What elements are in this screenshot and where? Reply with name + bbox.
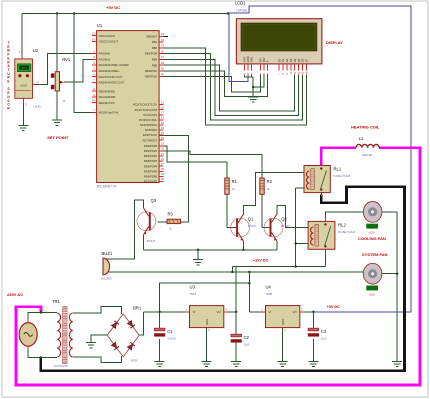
capacitor C3 [308,328,318,331]
wire U4 GND pin to ground [282,328,284,362]
svg-text:C3: C3 [321,329,327,334]
wire emitter rail [144,249,277,251]
LCD1 pins [244,64,246,71]
svg-text:35: 35 [161,44,165,48]
svg-text:RB7/PGD: RB7/PGD [145,75,157,79]
svg-text:38: 38 [161,61,165,65]
wire C3 top stub [312,312,314,328]
pin stub RL1 NO [320,193,322,197]
pin stub U3 VO [224,311,228,313]
svg-text:RV1: RV1 [62,57,71,62]
bridge diode D1 [111,321,119,329]
wire U3 VO to node [224,311,236,313]
ground C3 [308,361,318,363]
node LCD gnd RW [252,86,254,88]
svg-text:17: 17 [161,111,165,115]
wire PIC RD0 to R1 [159,146,227,178]
svg-text:+12V: +12V [369,292,375,296]
node +5V rail RV1 [56,12,58,14]
buzzer BUZ1 [103,258,110,275]
node +12V rail step [231,271,233,273]
wire RB6 to LCD E [159,71,267,97]
svg-text:RC0/T1OSO/T1CKI: RC0/T1OSO/T1CKI [133,103,157,107]
ground fans [392,361,402,363]
svg-text:RC7/RX/DT: RC7/RX/DT [143,138,158,142]
wire RL2 coil bottom stub [296,243,308,245]
svg-text:RD4/PSP4: RD4/PSP4 [144,164,158,168]
wire RB7 to LCD RS [159,75,260,92]
svg-text:LM35: LM35 [33,104,41,108]
svg-text:19: 19 [161,142,165,146]
transistor Q1 BC547 [231,218,250,237]
wire transformer secondary top to bridge [73,307,122,314]
wire +5V rail top [22,12,228,14]
node black tap [39,356,42,359]
svg-text:VI: VI [193,310,196,314]
pin stub U3 VI [186,311,190,313]
svg-text:VEE: VEE [250,57,254,63]
svg-text:RD2/PSP2: RD2/PSP2 [144,154,158,158]
svg-text:E: E [7,80,9,84]
svg-text:+12V: +12V [369,231,375,235]
svg-text:BC547: BC547 [281,224,290,228]
capacitor C1 [155,328,165,331]
svg-text:23: 23 [161,121,165,125]
bridge diode D2 [127,320,135,328]
svg-text:C2: C2 [244,335,250,340]
wire R1 to Q1 base [227,194,236,227]
svg-text:D7: D7 [305,58,309,62]
svg-text:27.0: 27.0 [21,67,27,71]
svg-text:RD5/PSP5: RD5/PSP5 [144,169,158,173]
svg-text:36: 36 [161,49,165,53]
wire thick black AC return [41,187,405,371]
svg-text:Q2: Q2 [281,217,287,222]
wire bridge right vertex to C1 rail [139,312,143,335]
wire system fan right stub [382,273,397,275]
svg-text:SYSTEM FAN: SYSTEM FAN [362,252,388,257]
wire transformer secondary bottom to bridge [73,356,122,363]
svg-text:COOLING FAN: COOLING FAN [358,236,386,241]
svg-text:29: 29 [161,172,165,176]
svg-text:13: 13 [92,32,96,36]
wire RB5 to LCD D4 [159,65,295,111]
svg-text:R2: R2 [267,179,273,184]
wire C3 bottom to ground [312,339,314,362]
wire magenta AC live loop [16,148,420,385]
svg-text:37: 37 [161,55,165,59]
svg-text:RE2/AN7/CS: RE2/AN7/CS [99,101,115,105]
svg-text:RL2: RL2 [338,222,346,227]
wire RV1 top to +5V rail [56,13,58,71]
svg-text:LCD1: LCD1 [235,0,246,5]
wire AC source bottom to transformer primary [28,346,57,357]
ground bridge [86,342,96,344]
svg-text:Q1: Q1 [248,217,254,222]
node C1 bridge [159,311,161,313]
wire U4 VO to +5V node [300,311,314,313]
transistor Q2 BC547 [264,218,283,237]
wire rail ground stem [197,250,199,260]
svg-text:VO: VO [292,310,297,314]
microcontroller U1 PIC16F877A [97,31,160,183]
node U3 VO C2 [235,311,237,313]
svg-text:15: 15 [161,100,165,104]
svg-text:14: 14 [92,37,96,41]
svg-text:C1: C1 [167,329,173,334]
svg-text:OSC2/CLKOUT: OSC2/CLKOUT [99,40,119,44]
svg-text:39: 39 [161,67,165,71]
wire U2 VCC to +5V rail [21,13,23,59]
wire RL2 common to cooling fan [326,212,363,223]
svg-text:BC547: BC547 [248,224,257,228]
node emitter rail gnd [197,249,199,251]
node emitter rail Q1 [242,249,244,251]
ground LCD [248,96,258,98]
AC source 220V [19,323,37,347]
svg-text:E: E [266,60,270,62]
pin stub U2 top [21,55,23,59]
svg-text:21: 21 [161,152,165,156]
wire LCD VDD to +5V [229,13,248,81]
svg-text:RB3/PGM: RB3/PGM [145,52,158,56]
svg-text:RC1/T1OSI/CCP2: RC1/T1OSI/CCP2 [135,108,158,112]
wire C1 top stub [159,312,161,328]
svg-text:U3: U3 [190,285,196,290]
wire bridge left vertex to ground [91,335,107,343]
resistor R1 [225,178,229,194]
wire LCD RW to ground [253,75,264,88]
U1 right pins [159,35,163,37]
svg-text:RB0/INT: RB0/INT [147,34,158,38]
wire +12V vertical to relay coils [295,188,297,267]
svg-text:RB5: RB5 [152,63,158,67]
wire Q3 emitter down [143,235,145,250]
svg-text:GND: GND [281,319,285,325]
svg-text:R1: R1 [232,179,238,184]
svg-text:22: 22 [161,157,165,161]
svg-text:RA5/AN4/SS/C2OUT: RA5/AN4/SS/C2OUT [99,81,125,85]
node +12V rail relay vertical [295,265,297,267]
wire U3 VO node up to +12V rail [235,267,237,312]
bridge diode D4 [127,342,135,350]
svg-text:RC2/CCP1: RC2/CCP1 [143,113,157,117]
wire PIC RC6 to R3 [159,136,189,222]
wire RB0 stub [159,35,168,37]
svg-text:16: 16 [161,105,165,109]
svg-text:RB6/PGC: RB6/PGC [145,69,157,73]
svg-text:RB4: RB4 [152,58,158,62]
svg-text:27: 27 [161,162,165,166]
svg-text:PIC16F877A: PIC16F877A [97,185,117,189]
wire MCLR pullup to +5V rail [74,13,96,112]
bridge diode D3 [111,342,119,350]
svg-text:U2: U2 [33,48,39,53]
wire RL2 switch bottom to +12V rail [324,249,326,266]
svg-text:RD6/PSP6: RD6/PSP6 [144,174,158,178]
transformer TR1 [57,313,60,357]
potentiometer RV1 [55,72,59,91]
svg-text:RE1/AN6/WR: RE1/AN6/WR [99,95,116,99]
svg-text:7805: 7805 [266,292,273,296]
wire cooling fan right to vertical [382,211,397,213]
ground U3 [202,361,212,363]
svg-text:Q3: Q3 [151,198,157,203]
svg-text:BC547: BC547 [147,239,156,243]
wire U4 input vertical [248,272,250,312]
svg-text:VI: VI [269,310,272,314]
svg-text:30: 30 [161,177,165,181]
ground U4 [278,361,288,363]
pin stub RL1 common [320,162,322,166]
svg-text:RB2: RB2 [152,46,158,50]
svg-text:MCLR/Vpp/THV: MCLR/Vpp/THV [99,111,119,115]
node over-line U4 [248,282,250,284]
wire Q3 collector to buzzer [103,200,144,259]
svg-text:BR1: BR1 [133,305,142,310]
svg-text:DJ1BH-T12LB: DJ1BH-T12LB [338,230,355,234]
svg-text:VOUT: VOUT [20,83,28,87]
svg-text:RB1: RB1 [152,40,158,44]
svg-text:+5V DC: +5V DC [106,5,120,10]
ground C1 [155,361,165,363]
wire RB2 to LCD D7 [159,48,306,125]
motor system fan [363,263,382,284]
ground emitter rail [193,259,203,261]
svg-text:+5V DC: +5V DC [327,305,341,309]
svg-text:RA4/T0CKI/C1OUT: RA4/T0CKI/C1OUT [99,75,123,79]
svg-text:20: 20 [161,147,165,151]
node U4 input fan line [248,271,250,273]
svg-text:RA0/AN0: RA0/AN0 [99,52,111,56]
wire Q1 emitter down [242,241,244,250]
svg-text:26: 26 [161,136,165,140]
svg-text:40: 40 [161,72,165,76]
motor cooling fan [363,202,382,223]
wire Q1 collector to RL1 coil [243,172,304,214]
wire +12V rail step [231,267,233,273]
svg-text:VO: VO [216,310,221,314]
wire PIC RD1 to R2 [159,151,262,178]
svg-text:DISPLAY: DISPLAY [326,40,343,45]
svg-text:R3: R3 [168,212,174,217]
svg-text:RC5/SDO: RC5/SDO [145,128,157,132]
svg-text:1000uF: 1000uF [167,336,176,340]
wire C1 bottom to ground [159,339,161,362]
node +5V C3 [312,311,314,313]
wire C2 top stub [235,312,237,334]
wire U2 GND [22,98,24,125]
svg-text:RE0/AN5/RD: RE0/AN5/RD [99,89,115,93]
svg-text:TRAN-2P2S: TRAN-2P2S [54,364,69,368]
svg-text:34: 34 [161,38,165,42]
U1 left pins [92,35,96,37]
wire U2 VOUT to PIC RA0 [37,54,97,85]
svg-text:RA2/AN2/VREF-/CVREF: RA2/AN2/VREF-/CVREF [99,63,130,67]
wire LCD ground stem [252,77,254,97]
svg-text:HEATING COIL: HEATING COIL [351,125,380,130]
svg-text:RC4/SDI/SDA: RC4/SDI/SDA [140,123,157,127]
wire Q2 emitter down [276,241,278,250]
node +5V rail LCD [227,12,229,14]
svg-text:RD1/PSP1: RD1/PSP1 [144,149,158,153]
svg-text:33: 33 [161,32,165,36]
wire LCD VSS VEE to ground [245,75,254,78]
wire C2 bottom to ground [235,341,237,362]
wire RL1 coil bottom stub [296,187,304,189]
svg-text:RL1: RL1 [334,167,342,172]
wire RV1 bottom to ground [56,91,58,120]
svg-text:TR1: TR1 [52,299,61,304]
svg-text:U1: U1 [97,23,103,28]
wire R3 to Q3 base [158,221,168,223]
temperature sensor U2 LM35 [15,59,33,98]
svg-text:7812: 7812 [190,292,197,296]
svg-text:RA3/AN3/VREF+: RA3/AN3/VREF+ [99,69,121,73]
pin stub U4 VO [300,311,304,313]
wire magenta heater to RL1 [321,148,356,166]
svg-text:18: 18 [161,116,165,120]
svg-text:RC3/SCK/SCL: RC3/SCK/SCL [139,118,158,122]
svg-text:BUZ1: BUZ1 [102,251,113,256]
wire RB3 to LCD D6 [159,54,302,121]
svg-text:HEATER: HEATER [362,153,372,157]
pin stub RL2 NO [325,249,327,253]
wire bridge to U3 VI [143,311,189,313]
wire +12V rail [232,266,325,268]
wire over U3 to U4 input [160,283,250,312]
wire Q2 collector to RL2 coil [277,206,308,228]
resistor R3 [167,219,181,223]
svg-text:24: 24 [161,126,165,130]
svg-text:GND: GND [205,319,209,325]
svg-text:U4: U4 [266,285,272,290]
ground U2 [18,124,28,126]
capacitor C2 [231,334,241,337]
relay RL2 [308,221,335,249]
node RL2 coil +12V [295,242,297,244]
relay RL1 [304,166,330,193]
svg-text:RA1/AN1: RA1/AN1 [99,58,111,62]
inductor L1 heating coil [356,144,379,147]
svg-text:RC6/TX/CK: RC6/TX/CK [143,133,158,137]
svg-text:L1: L1 [359,136,364,141]
resistor R2 [260,178,264,194]
bridge rectifier BR1 [107,314,139,357]
svg-text:25: 25 [161,131,165,135]
svg-text:28: 28 [161,167,165,171]
svg-text:+12V DC: +12V DC [253,259,269,263]
wire R2 to Q2 base [262,194,269,227]
wire U3 GND pin to ground [206,328,208,362]
wire RV1 wiper to PIC RA1 [64,59,97,82]
voltage regulator U3 7812 [190,306,224,328]
ground RV1 [52,119,62,121]
svg-text:10uF: 10uF [321,336,327,340]
wire buzzer/+12V long line to system fan [103,271,359,273]
pin stub U2 bottom [22,98,24,103]
svg-text:10uF: 10uF [244,342,250,346]
pin stub U2 vout [33,84,37,86]
svg-text:RD7/PSP7: RD7/PSP7 [144,180,158,184]
pin stub U4 VI [262,311,266,313]
svg-text:220V AC: 220V AC [7,292,23,297]
svg-text:LM016L: LM016L [236,9,248,13]
svg-text:OSC1/CLKIN: OSC1/CLKIN [99,34,115,38]
wire AC source top to transformer primary [28,312,57,323]
wire fans ground vertical [396,212,398,361]
voltage regulator U4 7805 [266,306,300,328]
wire U4 VI stub [249,311,265,313]
wire RB4 to LCD D5 [159,59,299,115]
svg-text:RD0/PSP0: RD0/PSP0 [144,144,158,148]
ground C2 [231,361,241,363]
svg-text:BUZZER: BUZZER [102,277,113,281]
node fan ground vertical [396,273,398,275]
node AC magenta tap [40,311,43,314]
wire system fan left stub [359,271,364,273]
svg-text:SET POINT: SET POINT [47,135,69,140]
node +5V rail MCLR [73,12,75,14]
svg-text:DJ1BH-T12LB: DJ1BH-T12LB [334,174,351,178]
LCD display LCD1 LM016L [236,19,322,64]
pin stub RL2 common [325,218,327,221]
transistor Q3 BC547 [137,212,156,231]
svg-text:BR36: BR36 [131,358,138,362]
svg-text:RD3/PSP3: RD3/PSP3 [144,159,158,163]
wire navy +5V loop from LCD to U4 output [228,6,411,312]
svg-text:10: 10 [92,99,96,103]
